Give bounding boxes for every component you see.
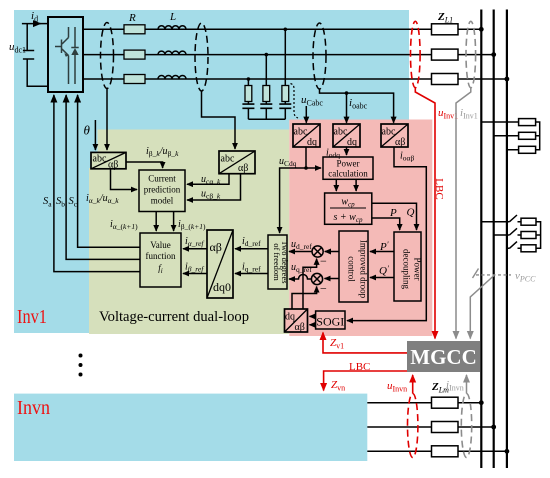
wire ib(k+1) [173, 212, 175, 232]
svg-text:Current: Current [148, 174, 176, 184]
wire dc left vertical [27, 24, 48, 87]
wire ib/ub to CPM top [126, 162, 163, 168]
filter capacitor branch 2 (phase2 tap) [260, 55, 272, 120]
gate arrows into inverter bottom [54, 95, 140, 272]
wire uCabc down to abc/dq1 [305, 106, 307, 123]
wire from ellipse1 to abc/ab left block [106, 89, 108, 151]
svg-text:LBC: LBC [433, 178, 445, 199]
sensor ellipse 2 [195, 23, 208, 91]
wire SOGI to dq/ab 2 [310, 324, 316, 326]
sensor ellipse red uInvn [408, 394, 418, 458]
wire capacitor bottom tie [248, 118, 285, 120]
load group 1 lines [481, 122, 539, 150]
svg-text:control: control [347, 256, 357, 282]
wire droop to mult1 [325, 251, 339, 253]
transform block abc/ab 3 [381, 124, 408, 148]
svg-text:Power: Power [337, 159, 360, 169]
resistor R phase1 [124, 25, 145, 34]
load resistor 2c [521, 245, 536, 252]
wire P calc out2 [355, 179, 357, 191]
wire uq_ref with hop [289, 275, 312, 280]
svg-text:dq: dq [347, 137, 357, 148]
wire red uInv1 to MGCC (LBC) [415, 88, 435, 339]
impedance ZL1 phase2 [432, 49, 459, 60]
wire dq/ab out2 to mult2 [292, 287, 317, 310]
inductor L phase2 [158, 51, 186, 54]
bus 2 [493, 10, 495, 469]
node phase1-bus1 [479, 27, 484, 32]
wire vPCC to MGCC [470, 276, 494, 339]
svg-text:Improved droop: Improved droop [359, 240, 369, 299]
svg-text:abc: abc [334, 127, 348, 138]
current sensor ellipse 1 [101, 23, 114, 89]
impedance ZLm line1 [432, 397, 459, 408]
svg-text:Q: Q [407, 207, 415, 219]
svg-text:dq0: dq0 [213, 280, 231, 294]
svg-text:αβ: αβ [210, 240, 222, 254]
block wcp/(s+wcp) [325, 193, 372, 224]
sensor ellipse gray iInv1 [466, 21, 476, 87]
wire ud_ref [289, 251, 312, 253]
resistor R phase3 [124, 75, 145, 84]
svg-text:Power: Power [413, 258, 423, 281]
resistor R phase2 [124, 50, 145, 59]
wire iq_ref [235, 273, 268, 275]
svg-text:αβ: αβ [238, 163, 248, 174]
wire red Zv1 MGCC to SOGI [323, 333, 407, 353]
block improved droop control [339, 231, 369, 302]
wire from ellipse2 to abc/ab right block [202, 91, 236, 149]
wire Q' [370, 277, 394, 279]
wire Sa [54, 95, 140, 272]
svg-text:decoupling: decoupling [402, 249, 412, 289]
wire SOGI to dq/ab 1 [310, 315, 316, 317]
impedance ZLm line2 [432, 422, 459, 433]
load group 2 lines with switches [481, 215, 540, 248]
wire uCdq from abc/dq1 [305, 147, 307, 168]
svg-text:dq: dq [307, 137, 317, 148]
wire uca_k to CPM [187, 174, 229, 185]
bus 1 [480, 10, 482, 469]
wire ia_ref [183, 248, 207, 250]
transform block abc/ab right [219, 151, 255, 174]
svg-text:dq: dq [285, 312, 295, 323]
wire phase line 1 [83, 28, 481, 30]
wire Sb [66, 95, 140, 259]
filter capacitor branch 3 (phase1 tap) [279, 29, 291, 119]
wire ia/ua to CPM [111, 169, 138, 190]
sensor ellipse red uInv1 [411, 21, 421, 87]
wire ib_ref [183, 273, 207, 275]
load resistor 1c [519, 146, 536, 153]
svg-text:Inv1: Inv1 [17, 306, 47, 328]
wire dc top [22, 23, 41, 25]
wire phase line 2 [83, 54, 494, 56]
impedance ZL1 phase1 [432, 24, 459, 35]
wire P calc out1 [335, 179, 337, 191]
svg-text:Voltage-current dual-loop: Voltage-current dual-loop [99, 309, 249, 325]
wire ioabc down to abc/dq2 [346, 93, 348, 123]
MGCC box [407, 341, 480, 372]
background: blue Invn region [14, 394, 367, 461]
wire ioab to SOGI [347, 147, 426, 321]
svg-text:MGCC: MGCC [410, 345, 477, 369]
load resistor 1a [519, 119, 536, 126]
svg-text:R: R [128, 12, 136, 24]
comparator mult2 [311, 273, 322, 284]
svg-text:Invn: Invn [17, 397, 50, 419]
dotted bracket uCabc [291, 84, 299, 119]
background: pink control region [289, 120, 432, 337]
wire red uInvn up to MGCC [412, 375, 414, 394]
svg-text:L: L [169, 11, 176, 23]
svg-text:model: model [151, 196, 174, 206]
wire uCdq to power calc [306, 167, 321, 169]
svg-text:function: function [146, 251, 176, 261]
node uCdq junction [304, 166, 308, 170]
wire droop to mult2 [325, 278, 340, 280]
block power decoupling [394, 232, 423, 301]
wire ioabc from ellipse3 [320, 89, 394, 123]
transform block abc/dq 2 [333, 124, 360, 148]
transform block abc/ab left [91, 152, 126, 170]
green wires [111, 162, 269, 274]
wire uCdq to two degrees [280, 168, 306, 233]
impedance ZLm line3 [432, 446, 459, 457]
load resistor 2b [521, 232, 536, 239]
wire P elbow [372, 218, 400, 230]
block current prediction model [139, 170, 185, 212]
node phase3-bus3 [505, 77, 510, 82]
wire Sc [78, 95, 140, 247]
comparator mult1 [312, 246, 323, 257]
svg-text:αβ: αβ [395, 137, 405, 148]
wire P' [370, 251, 394, 253]
node phase2-bus2 [491, 52, 496, 57]
svg-text:abc: abc [382, 127, 396, 138]
svg-text:Value: Value [150, 240, 171, 250]
wire iodq [346, 147, 348, 155]
inverter U1 box [48, 17, 83, 92]
svg-text:−: − [320, 282, 327, 296]
svg-text:−: − [320, 254, 327, 268]
svg-text:θ: θ [84, 123, 91, 138]
pink wires [280, 147, 427, 325]
svg-text:of freedom: of freedom [272, 243, 282, 281]
wire gray iInv1 to MGCC [456, 88, 471, 339]
inductor L phase3 [158, 76, 186, 79]
wire red LBC MGCC to Invn [324, 371, 407, 391]
sensor ellipse 3 [313, 23, 326, 89]
Invn output lines [367, 403, 507, 452]
svg-text:abc: abc [221, 154, 235, 165]
load resistor 2a [521, 218, 536, 225]
background: blue Inv1 region [14, 10, 409, 333]
node ioabc junction [345, 91, 349, 95]
bus 3 [506, 10, 508, 469]
svg-text:abc: abc [93, 154, 107, 165]
wire gray iInvn up to MGCC [466, 375, 468, 394]
svg-text:αβ: αβ [108, 160, 118, 171]
wire phase line 3 [83, 78, 507, 80]
block SOGI [316, 311, 345, 329]
filter capacitor branch 1 (phase3 tap) [242, 79, 254, 119]
load resistor 1b [519, 132, 536, 139]
svg-text:LBC: LBC [349, 361, 370, 373]
sensor ellipse gray iInvn [461, 394, 471, 458]
impedance ZL1 phase3 [432, 74, 459, 85]
svg-text:P: P [389, 207, 397, 219]
wire dq/ab out1 to mult1 [303, 259, 317, 309]
block dq/ab [285, 309, 308, 333]
wire ucb_k to CPM [187, 174, 241, 200]
svg-text:SOGI: SOGI [316, 315, 344, 329]
block ab/dq0 [207, 230, 233, 298]
vertical dots [79, 354, 83, 358]
inverter IGBT and diode [55, 27, 79, 84]
block power calculation [323, 157, 373, 179]
wire id_ref [235, 248, 268, 250]
svg-text:abc: abc [294, 127, 308, 138]
background: green control region [89, 130, 289, 335]
transform block abc/dq 1 [293, 124, 320, 148]
vPCC dashed tap [476, 274, 511, 276]
inductor L phase1 [158, 26, 186, 30]
capacitor udc plates [23, 51, 34, 60]
node invn line3-bus3 [505, 449, 510, 454]
node invn line2-bus2 [491, 425, 496, 430]
svg-text:calculation: calculation [328, 169, 368, 179]
block value function [140, 233, 181, 287]
node invn line1-bus1 [479, 400, 484, 405]
wire theta [94, 120, 96, 150]
wire Q elbow [372, 203, 417, 230]
wire ia(k+1) [155, 212, 157, 232]
svg-text:αβ: αβ [295, 322, 305, 333]
svg-text:prediction: prediction [144, 185, 181, 195]
block two degrees of freedom [268, 235, 290, 289]
